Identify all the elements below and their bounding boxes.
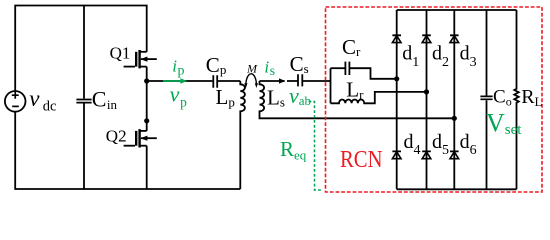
- svg-text:d1: d1: [402, 43, 419, 70]
- svg-text:Q2: Q2: [106, 127, 127, 146]
- svg-text:Q1: Q1: [110, 43, 131, 62]
- svg-text:vab: vab: [289, 83, 311, 108]
- svg-text:vp: vp: [170, 82, 188, 110]
- svg-text:Cp: Cp: [206, 53, 227, 77]
- svg-text:Co: Co: [493, 86, 512, 108]
- svg-text:Lr: Lr: [346, 78, 364, 102]
- svg-text:Req: Req: [280, 137, 307, 162]
- svg-text:d5: d5: [432, 131, 449, 158]
- svg-text:Ls: Ls: [267, 86, 285, 110]
- svg-text:Cr: Cr: [342, 35, 361, 59]
- svg-text:d4: d4: [404, 131, 421, 158]
- svg-text:ip: ip: [172, 57, 184, 79]
- svg-text:RL: RL: [521, 86, 542, 109]
- svg-text:Cin: Cin: [92, 87, 118, 113]
- svg-text:Cs: Cs: [290, 52, 309, 76]
- svg-text:d2: d2: [432, 43, 449, 70]
- svg-text:is: is: [264, 57, 275, 79]
- svg-text:Lp: Lp: [216, 85, 235, 110]
- svg-text:d3: d3: [460, 43, 477, 70]
- svg-text:M: M: [246, 61, 258, 75]
- svg-text:RCN: RCN: [340, 147, 383, 173]
- svg-text:vdc: vdc: [29, 86, 56, 114]
- svg-text:d6: d6: [460, 131, 477, 158]
